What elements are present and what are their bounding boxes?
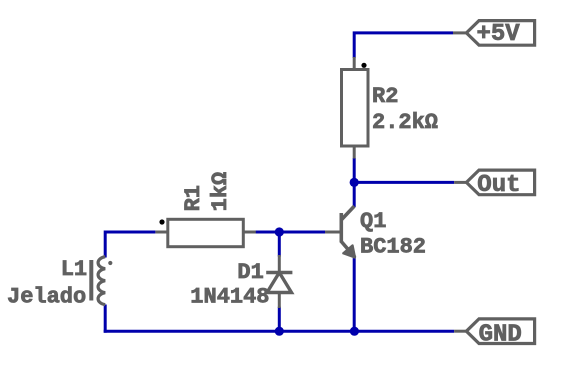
wire R1 left + left vertical: [104, 231, 156, 258]
svg-text:Q1: Q1: [360, 209, 386, 234]
wire emitter to bottom: [353, 258, 356, 333]
junction dot at base/diode node: [275, 227, 284, 236]
svg-text:Out: Out: [477, 172, 520, 199]
wire diode bottom: [278, 307, 281, 333]
flag GND: [454, 319, 534, 348]
junction dot at diode/GND node: [275, 327, 284, 336]
diode D1: [190, 255, 292, 310]
wire left vertical bottom: [104, 305, 107, 333]
svg-text:R1: R1: [181, 185, 206, 211]
transistor Q1: [325, 206, 426, 259]
wire R2 bottom to collector: [353, 158, 356, 207]
wire R1 right to base: [252, 231, 325, 234]
junction dot at Out node: [350, 178, 359, 187]
wire bottom horizontal GND: [104, 330, 454, 333]
wire +5V horizontal: [353, 31, 453, 58]
svg-text:GND: GND: [479, 321, 522, 348]
resistor R2: [342, 57, 439, 159]
junction dot at emitter/GND node: [350, 327, 359, 336]
svg-text:1kΩ: 1kΩ: [208, 172, 233, 212]
svg-text:2.2kΩ: 2.2kΩ: [372, 110, 438, 135]
svg-text:L1: L1: [61, 257, 87, 282]
inductor L1: [7, 257, 112, 310]
svg-text:1N4148: 1N4148: [190, 285, 269, 310]
svg-text:Jelado: Jelado: [7, 284, 86, 309]
svg-text:R2: R2: [372, 84, 398, 109]
svg-text:BC182: BC182: [360, 234, 426, 259]
wire Out horizontal: [354, 181, 454, 184]
resistor R1: [155, 172, 255, 247]
svg-text:+5V: +5V: [477, 21, 521, 48]
wire diode top: [278, 231, 281, 257]
svg-text:D1: D1: [237, 260, 263, 285]
flag +5V: [453, 21, 535, 48]
flag Out: [454, 170, 534, 199]
